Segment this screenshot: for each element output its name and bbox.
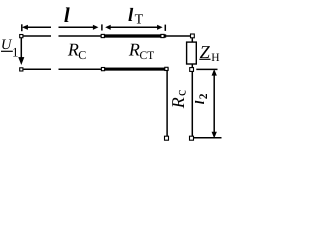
svg-text:С: С (78, 48, 86, 62)
svg-text:1: 1 (12, 44, 19, 59)
svg-text:l: l (128, 5, 134, 26)
svg-text:с: с (174, 90, 189, 96)
svg-text:СТ: СТ (140, 50, 155, 62)
svg-text:2: 2 (198, 93, 210, 99)
svg-text:R: R (128, 39, 140, 59)
svg-text:l: l (64, 3, 70, 27)
svg-text:R: R (67, 40, 79, 60)
svg-text:l: l (192, 100, 207, 104)
svg-text:Т: Т (135, 12, 144, 27)
svg-text:Н: Н (211, 52, 219, 64)
svg-text:R: R (168, 97, 188, 109)
